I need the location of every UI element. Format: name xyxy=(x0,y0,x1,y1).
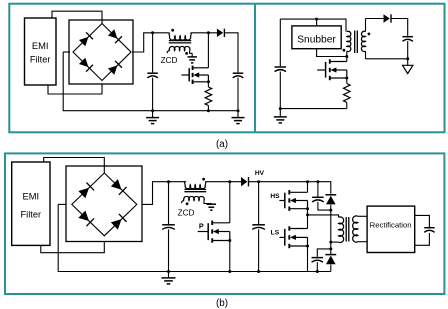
polarity dot ZCD (a) xyxy=(185,52,188,55)
boost inductor L2 winding (b) xyxy=(184,182,241,189)
junction dot Q3 source xyxy=(228,239,231,242)
capacitor C4 output (a right) xyxy=(402,37,413,59)
T2 core lines xyxy=(346,217,349,242)
wire return drop to ground rail (b) xyxy=(58,204,331,271)
capacitor C3 input (a right) xyxy=(275,19,287,109)
node junction dot input cap (a) xyxy=(151,31,154,34)
rectification block xyxy=(367,206,415,252)
wire Q4 source to switch node xyxy=(307,209,309,215)
ground symbol under C2 xyxy=(232,111,245,124)
ground symbol ZCD (b) xyxy=(207,204,216,211)
ZCD winding (b) xyxy=(182,196,212,203)
snubber block xyxy=(292,19,341,49)
junction dot lower cap node xyxy=(329,247,332,250)
junction dot input cap (b) xyxy=(167,180,170,183)
polarity dot ZCD (b) xyxy=(186,202,189,205)
polarity dot T1 secondary xyxy=(368,33,371,36)
junction dot switch node xyxy=(306,213,309,216)
bridge diamond (b) xyxy=(72,173,137,236)
junction dot output return xyxy=(406,57,409,60)
svg-text:HV: HV xyxy=(255,170,265,177)
bridge diode D8 (b top-right) xyxy=(111,179,127,195)
ground symbol (a right) xyxy=(274,109,287,123)
junction dot D12 cap node xyxy=(329,209,332,212)
svg-text:ZCD: ZCD xyxy=(161,56,178,65)
boost diode D11 (b) xyxy=(241,177,249,186)
junction dot Q5 source xyxy=(306,245,309,248)
junction dot rail-cap leg xyxy=(316,180,319,183)
wire Q3 drain up xyxy=(229,182,231,223)
bridge diamond (a) xyxy=(73,24,131,81)
flyback transformer T1 primary xyxy=(347,31,351,61)
wire bridge left vertex stub xyxy=(63,51,70,53)
bridge diode D10 (b bottom-right) xyxy=(111,214,127,230)
inductor core lines (a) xyxy=(169,41,191,43)
svg-text:P: P xyxy=(199,222,204,231)
junction dot boost diode node (a) xyxy=(207,31,210,34)
junction dot R1 to rail xyxy=(207,109,210,112)
wire T2 secondary to rectification xyxy=(358,216,367,241)
capacitor C9 output (b) xyxy=(424,228,434,233)
svg-text:LS: LS xyxy=(271,230,280,237)
polarity dot L2 xyxy=(202,178,205,181)
capacitor C7 half-bridge upper xyxy=(312,182,331,210)
svg-text:Filter: Filter xyxy=(30,55,51,65)
diode D12 half-bridge upper xyxy=(325,195,336,255)
ZCD winding (a) xyxy=(167,46,192,53)
polarity dot T1 primary xyxy=(343,49,346,52)
capacitor C6 HV (b) xyxy=(252,182,265,272)
wire return drop to ground rail (a) xyxy=(63,52,237,111)
wire Q5 drain to switch node xyxy=(307,215,309,229)
wire snubber bottom to primary bottom xyxy=(317,49,347,57)
capacitor C8 half-bridge lower xyxy=(312,249,331,272)
wire EMI top to bridge top (b) xyxy=(44,158,105,174)
resistor R2 sense (a right) xyxy=(344,78,351,109)
wire Q1 drain to node xyxy=(207,33,209,68)
capacitor C1 input (a) xyxy=(147,33,158,111)
wire Q4 drain to rail xyxy=(307,182,309,193)
junction dot Q2 source xyxy=(345,77,348,80)
junction dot C5 rail xyxy=(167,270,170,273)
label P xyxy=(199,222,204,231)
wire secondary top to output diode xyxy=(366,18,384,20)
MOSFET Q1 boost switch (a) xyxy=(182,66,209,84)
bridge diode D4 (a bottom-right) xyxy=(108,61,122,75)
wire output cap loop xyxy=(415,215,430,245)
boost diode D5 (a) xyxy=(217,29,225,37)
bridge diode D1 (a top-left) xyxy=(79,32,93,46)
EMI filter block (b) xyxy=(12,162,50,245)
ground symbol (b) xyxy=(162,272,176,284)
output diode D6 (a right) xyxy=(384,14,392,22)
wire EMI top to bridge top xyxy=(52,11,102,23)
wire diode to output cap (a) xyxy=(224,33,238,73)
junction dot C6 rail xyxy=(257,270,260,273)
boost inductor L1 primary winding xyxy=(168,33,217,40)
wire secondary bottom return xyxy=(366,58,408,60)
label ZCD (a) xyxy=(161,56,178,65)
svg-text:HS: HS xyxy=(270,193,280,200)
label HS xyxy=(270,193,280,200)
junction dot HV node xyxy=(257,180,260,183)
wire bottom rail (a right) xyxy=(280,108,347,110)
transformer T2 secondary xyxy=(353,216,358,242)
svg-text:Filter: Filter xyxy=(20,210,41,220)
T1 secondary winding xyxy=(361,19,365,59)
wire Q3 source to rail xyxy=(229,241,231,272)
EMI filter block (a) xyxy=(25,18,57,85)
T1 core lines xyxy=(355,31,358,54)
ground symbol under C1 xyxy=(146,111,159,124)
diode D13 half-bridge lower xyxy=(325,255,336,272)
wire bridge right vertex to boost input (b) xyxy=(142,182,184,205)
caption (a) xyxy=(216,139,228,150)
bridge rectifier box (a) xyxy=(69,20,133,84)
junction dot snubber top xyxy=(315,18,318,21)
svg-text:Rectification: Rectification xyxy=(370,221,412,230)
transformer T2 primary xyxy=(331,217,344,243)
wire input rail left (a right) xyxy=(280,19,346,32)
MOSFET Q5 low side xyxy=(279,226,307,248)
svg-text:EMI: EMI xyxy=(23,192,40,202)
ground symbol ZCD (a) xyxy=(188,53,197,63)
wire diode to output cap (a right) xyxy=(391,19,408,36)
junction dot T2 primary bottom xyxy=(329,241,332,244)
junction dot rail-HS xyxy=(306,180,309,183)
svg-text:Snubber: Snubber xyxy=(297,34,336,45)
wire EMI bottom hook to bridge bottom xyxy=(48,84,102,94)
wire HV rail to half bridge xyxy=(249,182,331,194)
wire EMI bottom hook to bridge bottom (b) xyxy=(41,242,105,253)
resistor R1 sense (a) xyxy=(205,82,212,111)
wire switch node to T2 primary xyxy=(308,215,339,217)
junction dot C8 rail xyxy=(316,270,319,273)
polarity dot L1 primary xyxy=(171,29,174,32)
junction dot C1 to rail xyxy=(151,109,154,112)
label LS xyxy=(271,230,280,237)
junction dot Q4 source xyxy=(306,207,309,210)
wire Q5 source to rail xyxy=(307,246,309,272)
svg-text:(b): (b) xyxy=(216,298,228,309)
chassis ground triangle output xyxy=(403,59,413,74)
bridge diode D9 (b bottom-left) xyxy=(78,210,94,226)
bridge diode D7 (b top-left) xyxy=(78,183,94,199)
caption (b) xyxy=(216,298,228,309)
junction dot Q3 rail xyxy=(228,270,231,273)
svg-text:(a): (a) xyxy=(216,139,228,150)
junction dot C2 to rail xyxy=(237,109,240,112)
junction dot Q1 source xyxy=(207,80,210,83)
label ZCD (b) xyxy=(178,209,195,218)
panel (b) border frame xyxy=(5,153,444,294)
capacitor C5 (b) xyxy=(162,182,175,272)
bridge diode D2 (a top-right) xyxy=(108,29,122,43)
bridge diode D3 (a bottom-left) xyxy=(79,57,93,71)
junction dot C3 to rail xyxy=(279,107,282,110)
core lines L2 (b) xyxy=(184,189,206,191)
junction dot P drain node xyxy=(228,180,231,183)
bridge rectifier box (b) xyxy=(66,166,142,242)
junction dot primary bottom node xyxy=(345,55,348,58)
MOSFET Q2 flyback switch xyxy=(317,59,347,80)
panel (a) border frame xyxy=(9,4,444,133)
MOSFET Q3 P boost switch (b) xyxy=(198,221,230,243)
svg-text:EMI: EMI xyxy=(32,41,49,51)
wire bridge right vertex to boost input xyxy=(132,33,168,52)
MOSFET Q4 high side xyxy=(279,190,307,211)
wire bridge left vertex stub (b) xyxy=(58,203,66,205)
capacitor C2 output (a) xyxy=(233,73,244,111)
label HV xyxy=(255,170,265,177)
svg-text:ZCD: ZCD xyxy=(178,209,195,218)
